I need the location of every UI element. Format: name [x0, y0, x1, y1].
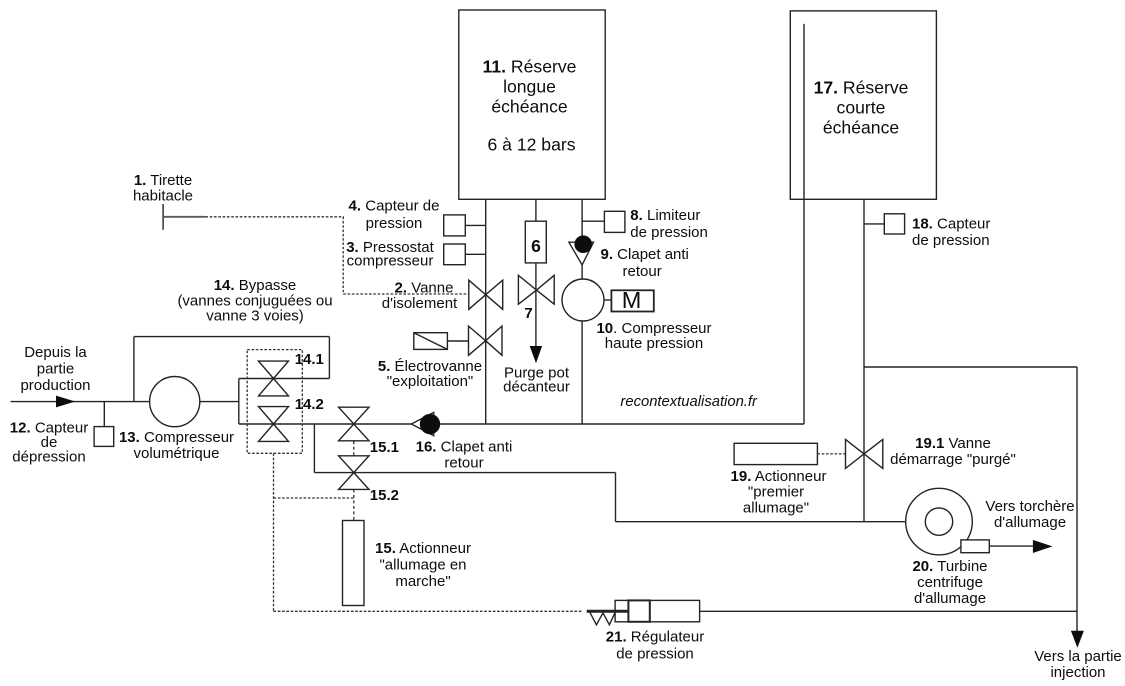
- svg-text:19.1 Vanne: 19.1 Vanne: [915, 435, 991, 452]
- wire dotted control branch to valve 15.2: [274, 497, 354, 499]
- wire pipe3 from R11 bottom through clapet 9 to compressor 10 and main line: [581, 199, 583, 424]
- svg-text:échéance: échéance: [823, 118, 899, 138]
- svg-text:8. Limiteur: 8. Limiteur: [630, 207, 700, 224]
- svg-text:14. Bypasse: 14. Bypasse: [214, 277, 297, 294]
- svg-text:21. Régulateur: 21. Régulateur: [606, 629, 704, 646]
- svg-text:2. Vanne: 2. Vanne: [395, 280, 454, 297]
- regulator 21 body: [615, 600, 700, 621]
- text label 2 vanne: [382, 280, 458, 313]
- bypass dotted enclosure box 14: [247, 350, 302, 454]
- wire connector to sensor 4: [465, 224, 486, 226]
- svg-text:retour: retour: [623, 263, 662, 280]
- text label R17: [814, 77, 909, 137]
- wire dashed stem valve 15.2 to actuator 15: [353, 489, 355, 520]
- svg-text:d'allumage: d'allumage: [914, 590, 986, 607]
- svg-text:marche": marche": [395, 573, 450, 590]
- limiter 8 square: [604, 211, 625, 232]
- svg-text:9. Clapet anti: 9. Clapet anti: [601, 246, 689, 263]
- valve 5 bowtie: [469, 326, 486, 355]
- motor M box: [611, 290, 653, 311]
- wire solenoid link to valve 5: [447, 340, 468, 342]
- svg-text:17. Réserve: 17. Réserve: [814, 77, 909, 97]
- svg-text:Depuis la: Depuis la: [24, 344, 87, 361]
- svg-text:recontextualisation.fr: recontextualisation.fr: [620, 394, 758, 410]
- svg-text:15. Actionneur: 15. Actionneur: [375, 540, 471, 557]
- svg-text:1. Tirette: 1. Tirette: [134, 172, 192, 189]
- svg-text:de pression: de pression: [630, 224, 708, 241]
- wire bypass vertical between 14.1 and 14.2: [238, 379, 240, 425]
- check valve 9: [569, 242, 594, 265]
- reservoir R11 box: [459, 10, 605, 199]
- text label 21 regulateur: [606, 629, 704, 663]
- svg-text:de pression: de pression: [912, 232, 990, 249]
- wire bypass loop left riser: [133, 337, 135, 402]
- valve 14.2 hourglass: [259, 407, 289, 424]
- wire injection drop line: [1076, 367, 1078, 632]
- valve 19.1 bowtie: [846, 439, 865, 468]
- turbine outlet arrowhead to torch: [1033, 540, 1053, 553]
- svg-text:15.1: 15.1: [370, 439, 399, 456]
- wire connector to limiter 8: [582, 220, 604, 222]
- wire turbine feed line: [616, 521, 906, 523]
- svg-text:20. Turbine: 20. Turbine: [912, 558, 987, 575]
- svg-text:"premier: "premier: [748, 484, 804, 501]
- wire branch down to line 15.2: [313, 424, 315, 473]
- text label 1 tirette: [133, 172, 193, 205]
- svg-text:Vers la partie: Vers la partie: [1034, 648, 1122, 665]
- text label 19.1 vanne: [890, 435, 1016, 468]
- svg-text:14.1: 14.1: [295, 351, 324, 368]
- svg-text:allumage": allumage": [743, 500, 809, 517]
- svg-text:démarrage "purgé": démarrage "purgé": [890, 451, 1016, 468]
- text label 10 compresseur: [596, 320, 711, 352]
- svg-text:longue: longue: [503, 77, 556, 97]
- wire dotted control line to regulator 21: [274, 610, 584, 612]
- text label R11: [483, 57, 577, 155]
- check valve 16: [411, 412, 433, 435]
- wire drop to turbine feed: [615, 473, 617, 522]
- wire regulator output line: [700, 610, 1077, 612]
- pressostat 3 square: [444, 244, 466, 265]
- wire pipe into R17 interior (node R17 inlet): [803, 24, 805, 424]
- svg-text:11. Réserve: 11. Réserve: [483, 57, 577, 77]
- wire connector to pressostat 3: [465, 253, 486, 255]
- svg-text:19. Actionneur: 19. Actionneur: [731, 468, 827, 485]
- svg-text:"allumage en: "allumage en: [379, 557, 466, 574]
- svg-text:compresseur: compresseur: [347, 253, 434, 270]
- svg-text:16. Clapet anti: 16. Clapet anti: [416, 439, 513, 456]
- actuator 15 box: [343, 521, 365, 606]
- text label 9 clapet: [601, 246, 689, 280]
- text label 16 clapet: [416, 439, 513, 472]
- text label 19 actionneur: [731, 468, 827, 517]
- regulator 21 inlet thick bar: [587, 610, 629, 613]
- wire turbine outlet arrow line: [989, 545, 1034, 547]
- text label 20 turbine: [912, 558, 987, 607]
- text label 4 capteur: [349, 198, 440, 233]
- text label 14 bypasse: [177, 277, 332, 325]
- turbine 20: [906, 488, 973, 555]
- svg-text:d'allumage: d'allumage: [994, 514, 1066, 531]
- wire pipe2 from R11 bottom through box 6 and valve 7 to purge: [535, 199, 537, 347]
- wire main line through valves 14.2, 15.1, clapet 16 to R17 riser: [239, 423, 804, 425]
- tirette T handle: [162, 204, 164, 230]
- text label 15 actionneur: [375, 540, 471, 590]
- purge outlet arrow: [530, 346, 542, 363]
- svg-text:injection: injection: [1050, 664, 1105, 681]
- arrow from production: [56, 396, 75, 408]
- wire bypass upper branch through valve 14.1: [239, 378, 330, 380]
- regulator 21 spring: [590, 612, 615, 624]
- wire dotted control drop from box 14: [273, 453, 275, 611]
- wire pipe1 from R11 bottom through valves 2 and 5: [485, 199, 487, 424]
- text label purge: [503, 365, 570, 396]
- sensor 18 square: [884, 214, 904, 234]
- svg-text:pression: pression: [366, 215, 423, 232]
- svg-text:15.2: 15.2: [370, 487, 399, 504]
- wire R17 bottom outlet pipe through valve 19.1: [863, 199, 865, 521]
- wire bypass loop right drop: [328, 337, 330, 379]
- actuator 19 box: [734, 443, 817, 464]
- svg-text:18. Capteur: 18. Capteur: [912, 216, 990, 233]
- solenoid box of electrovalve 5: [414, 333, 448, 350]
- wire dashed actuator 19 link: [817, 453, 845, 455]
- svg-text:14.2: 14.2: [295, 396, 324, 413]
- svg-text:dépression: dépression: [12, 449, 85, 466]
- svg-text:décanteur: décanteur: [503, 379, 570, 396]
- valve 14.1 hourglass: [259, 361, 289, 378]
- svg-text:d'isolement: d'isolement: [382, 295, 458, 312]
- text label 8 limiteur: [630, 207, 708, 241]
- svg-text:production: production: [20, 377, 90, 394]
- wire link to motor M: [604, 299, 611, 301]
- wire stub to vacuum sensor 12: [103, 402, 105, 427]
- svg-text:13. Compresseur: 13. Compresseur: [119, 429, 234, 446]
- svg-text:Vers torchère: Vers torchère: [985, 498, 1074, 515]
- text label vers torchere: [985, 498, 1074, 531]
- svg-text:4. Capteur de: 4. Capteur de: [349, 198, 440, 215]
- valve 15.2 hourglass: [339, 456, 369, 473]
- svg-text:6 à 12 bars: 6 à 12 bars: [487, 135, 575, 155]
- valve 2 bowtie: [469, 280, 486, 309]
- text label vers la partie injection: [1034, 648, 1122, 681]
- valve 7 bowtie: [518, 275, 536, 304]
- valve 15.1 hourglass: [339, 407, 369, 424]
- wire bypass loop top: [134, 336, 330, 338]
- svg-text:"exploitation": "exploitation": [387, 373, 474, 390]
- wire main inlet line from production: [11, 401, 239, 403]
- wire branch to injection: [864, 366, 1077, 368]
- reservoir R17 box: [790, 11, 936, 199]
- svg-text:M: M: [622, 287, 642, 313]
- svg-text:de pression: de pression: [616, 646, 694, 663]
- svg-text:échéance: échéance: [491, 97, 567, 117]
- text label 12 capteur depression: [10, 420, 88, 466]
- wire line through valve 15.2: [314, 472, 615, 474]
- svg-text:habitacle: habitacle: [133, 188, 193, 205]
- wire dotted tirette control line: [205, 217, 468, 294]
- text label 13 compresseur: [119, 429, 234, 462]
- compressor 10 circle: [562, 279, 604, 321]
- svg-text:volumétrique: volumétrique: [134, 445, 220, 462]
- svg-text:haute pression: haute pression: [605, 335, 703, 352]
- svg-text:6: 6: [531, 236, 541, 256]
- text label 18 capteur: [912, 216, 990, 250]
- svg-text:partie: partie: [37, 361, 75, 378]
- svg-text:courte: courte: [837, 98, 886, 118]
- compressor 13 circle: [150, 377, 200, 427]
- svg-text:7: 7: [524, 305, 532, 322]
- text label depuis la partie production: [20, 344, 90, 394]
- text label 3 pressostat: [346, 239, 434, 270]
- svg-text:retour: retour: [444, 455, 483, 472]
- svg-text:centrifuge: centrifuge: [917, 574, 983, 591]
- wire dashed stem between valves 15.1 and 15.2: [353, 441, 355, 456]
- svg-text:vanne 3 voies): vanne 3 voies): [206, 308, 304, 325]
- vacuum sensor 12 square: [94, 427, 114, 447]
- wire connector to sensor 18: [864, 223, 884, 225]
- text label 5 electrovanne: [378, 358, 482, 390]
- sensor 4 square: [444, 215, 466, 236]
- buffer pot 6 box: [525, 221, 546, 263]
- injection arrowhead: [1071, 631, 1084, 648]
